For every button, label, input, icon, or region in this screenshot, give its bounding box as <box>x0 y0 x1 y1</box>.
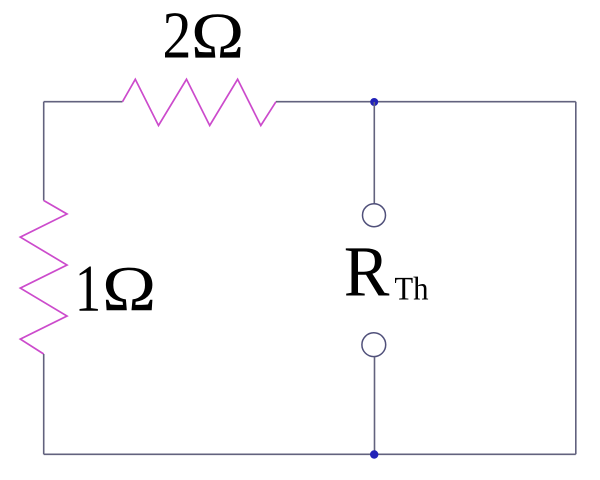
label 2ohm <box>165 13 241 58</box>
resistor R 2ohm zigzag <box>123 79 277 125</box>
resistor R 1ohm zigzag <box>20 201 67 355</box>
wire: top-right horizontal segment <box>276 101 576 103</box>
wire: middle branch upper <box>373 102 375 204</box>
wire: right vertical <box>575 102 577 455</box>
terminal a: open circle upper <box>363 204 386 227</box>
wire: top-left horizontal segment <box>44 101 123 103</box>
label 1ohm <box>80 267 153 311</box>
terminal b: open circle lower <box>362 333 386 357</box>
wire: bottom horizontal <box>44 453 576 455</box>
node dot: bottom junction <box>370 450 378 458</box>
wire: left vertical bottom segment <box>43 354 45 454</box>
node dot: top junction <box>370 98 378 106</box>
wire: middle branch lower <box>374 357 376 455</box>
label R_Th <box>346 248 390 295</box>
wire: left vertical top segment <box>43 102 45 201</box>
